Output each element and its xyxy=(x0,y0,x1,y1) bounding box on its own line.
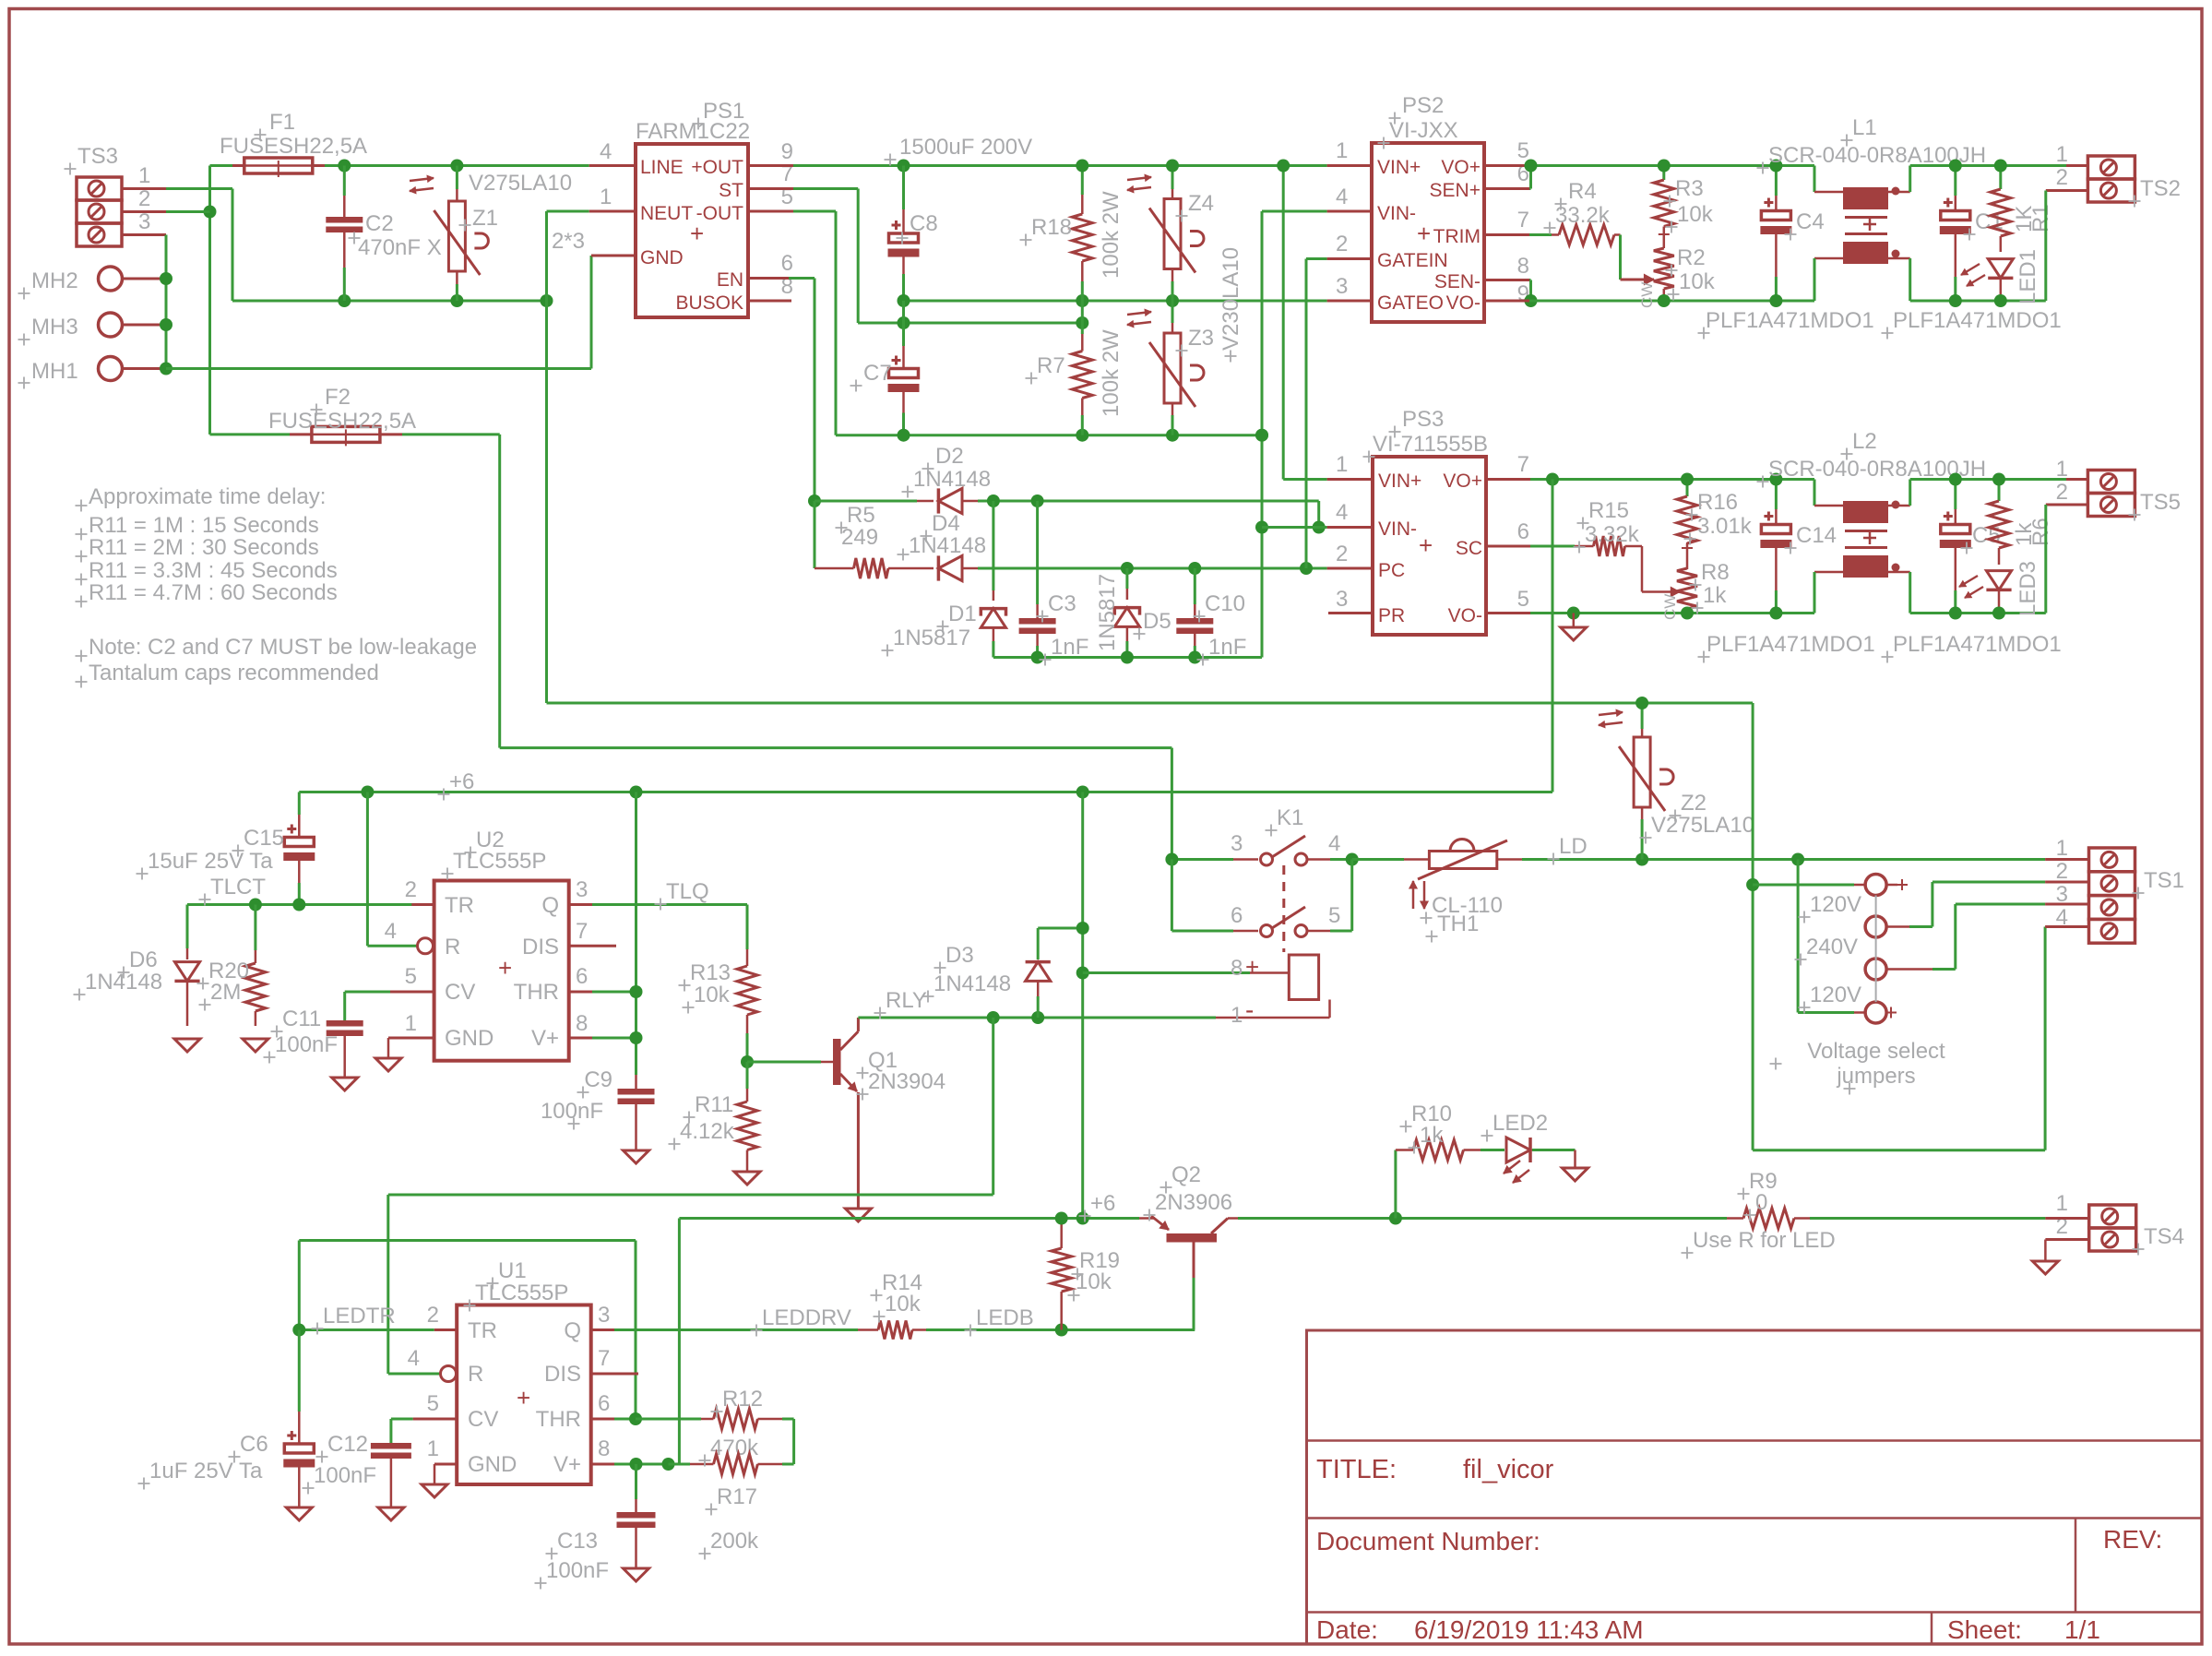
junction VO+ SEN+ xyxy=(1525,160,1538,173)
svg-text:100nF: 100nF xyxy=(275,1032,338,1057)
capacitor C13 xyxy=(617,1464,656,1568)
resistor R10 xyxy=(1396,1140,1481,1161)
wire NEUT bus y326 xyxy=(232,300,547,303)
label LED1 xyxy=(2016,249,2040,304)
capacitor C4 xyxy=(1760,166,1791,302)
svg-text:249: 249 xyxy=(841,525,878,550)
svg-text:EN: EN xyxy=(717,269,743,291)
junction circle1 tap xyxy=(1746,878,1759,891)
LED LED3 xyxy=(1986,571,2011,614)
junction RLY D3 xyxy=(1031,1011,1044,1024)
svg-text:1: 1 xyxy=(405,1011,417,1036)
PS3 labels xyxy=(1373,407,1488,457)
capacitor C3 xyxy=(1019,501,1056,658)
wire TLQ row xyxy=(592,905,747,950)
ground C13 xyxy=(624,1568,649,1581)
wire C7 bus y471.7 xyxy=(836,434,1262,436)
wire pin1 to NEUT bus xyxy=(166,189,232,302)
svg-text:5: 5 xyxy=(427,1391,439,1416)
svg-text:FARM1C22: FARM1C22 xyxy=(636,119,750,144)
svg-text:V230LA10: V230LA10 xyxy=(1219,247,1243,351)
wire LD row xyxy=(1522,858,2045,861)
wire NEUT to PS1 xyxy=(547,210,636,213)
label C2 xyxy=(358,211,442,260)
label R4 xyxy=(1555,179,1611,228)
wire rail B x541.7 down xyxy=(498,435,501,748)
PS3 pin names xyxy=(1378,471,1482,626)
fuse F1 xyxy=(210,158,636,177)
svg-text:1N4148: 1N4148 xyxy=(934,971,1011,996)
svg-text:C6: C6 xyxy=(240,1432,268,1457)
svg-text:REV:: REV: xyxy=(2103,1525,2162,1554)
svg-text:R15: R15 xyxy=(1588,498,1629,523)
svg-text:L2: L2 xyxy=(1852,429,1877,454)
svg-text:VO-: VO- xyxy=(1446,292,1481,314)
svg-text:TS1: TS1 xyxy=(2144,868,2184,893)
label LD xyxy=(1559,834,1588,859)
svg-text:R12: R12 xyxy=(722,1387,763,1412)
svg-text:R11 = 4.7M : 60 Seconds: R11 = 4.7M : 60 Seconds xyxy=(89,580,338,605)
ground PS3 VO- xyxy=(1561,614,1587,641)
label C11 xyxy=(275,1007,338,1057)
svg-text:SEN-: SEN- xyxy=(1434,271,1481,292)
svg-text:Date:: Date: xyxy=(1316,1615,1378,1644)
resistor R18 xyxy=(1072,166,1092,302)
junction C10 top xyxy=(1188,562,1201,575)
svg-text:1/1: 1/1 xyxy=(2064,1615,2100,1644)
svg-text:1N5817: 1N5817 xyxy=(893,625,970,650)
svg-text:VI-711555B: VI-711555B xyxy=(1373,432,1488,457)
svg-text:VO-: VO- xyxy=(1448,605,1482,626)
junction +6 col2 xyxy=(1076,1212,1089,1225)
label 1500uF 200V xyxy=(899,135,1032,160)
svg-text:TRIM: TRIM xyxy=(1433,226,1481,247)
svg-text:VIN+: VIN+ xyxy=(1377,157,1421,178)
svg-text:VO+: VO+ xyxy=(1441,157,1481,178)
junction K1 right xyxy=(1346,853,1359,866)
svg-text:fil_vicor: fil_vicor xyxy=(1463,1455,1554,1484)
svg-text:-: - xyxy=(1245,995,1254,1024)
junction Z1 bottom xyxy=(450,294,463,307)
label R7 xyxy=(1037,329,1124,417)
mounting hole MH3 xyxy=(31,313,166,340)
junction C3 top xyxy=(1031,494,1044,507)
wire U2 reset drop xyxy=(367,792,417,947)
label Z2 xyxy=(1651,791,1754,838)
wire RLY row xyxy=(858,1017,1216,1019)
svg-text:LEDTR: LEDTR xyxy=(323,1304,396,1328)
label R18 xyxy=(1031,191,1124,279)
TH1 arrows xyxy=(1409,881,1428,909)
U2 labels xyxy=(453,828,546,874)
U2 CV wire xyxy=(345,992,434,1020)
svg-text:C11: C11 xyxy=(282,1007,321,1031)
svg-text:3.32k: 3.32k xyxy=(1585,522,1640,547)
PS1 pin names xyxy=(640,157,743,314)
PS3 SC stub xyxy=(1486,545,1575,548)
svg-text:4: 4 xyxy=(1328,831,1340,856)
U2 GND pin xyxy=(388,1038,434,1058)
ground C6 xyxy=(286,1507,312,1520)
svg-text:PLF1A471MDO1: PLF1A471MDO1 xyxy=(1707,632,1875,657)
R15 to R8 wiper xyxy=(1642,546,1680,597)
svg-text:NEUT: NEUT xyxy=(640,203,693,224)
label R13 xyxy=(690,960,731,1007)
title text xyxy=(1316,1455,1554,1484)
label R14 xyxy=(882,1270,922,1316)
svg-text:jumpers: jumpers xyxy=(1836,1064,1915,1089)
label R19 xyxy=(1076,1248,1120,1294)
U1 V+ stub xyxy=(591,1463,680,1466)
label voltage select xyxy=(1807,1039,1945,1089)
wire PS2 VIN- row xyxy=(1262,210,1327,213)
transistor Q1 xyxy=(833,1018,858,1209)
wire VO+ rail L2-TS5 xyxy=(1910,478,2088,481)
varistor Z1 xyxy=(434,166,488,302)
U1 reset bubble xyxy=(441,1366,457,1382)
svg-text:1: 1 xyxy=(2056,836,2068,861)
svg-text:1: 1 xyxy=(2056,1191,2068,1216)
svg-text:LINE: LINE xyxy=(640,157,684,178)
wire Q1 base xyxy=(747,1061,835,1064)
label R5 xyxy=(841,503,878,550)
junction LEDTR xyxy=(292,1324,305,1337)
svg-text:D5: D5 xyxy=(1143,609,1171,634)
svg-text:+6: +6 xyxy=(1090,1191,1115,1216)
label D2 xyxy=(913,444,991,492)
svg-text:VO+: VO+ xyxy=(1443,471,1482,492)
svg-text:8: 8 xyxy=(1231,956,1243,981)
svg-text:+: + xyxy=(690,220,704,247)
resistor R13 xyxy=(737,949,757,1062)
svg-text:PR: PR xyxy=(1378,605,1405,626)
svg-text:10k: 10k xyxy=(1076,1269,1112,1294)
U2 pin numbers xyxy=(385,877,589,1036)
thermistor TH1 xyxy=(1418,840,1522,880)
svg-text:100k 2W: 100k 2W xyxy=(1099,329,1124,417)
svg-text:Document Number:: Document Number: xyxy=(1316,1527,1540,1555)
junction VIN- PS3 stub xyxy=(1255,521,1268,534)
wire pin2 to junction xyxy=(166,210,210,213)
junction C8 top xyxy=(898,160,910,173)
U2 Q stub xyxy=(569,903,592,906)
svg-text:LEDB: LEDB xyxy=(976,1305,1034,1330)
svg-text:R11 = 2M : 30 Seconds: R11 = 2M : 30 Seconds xyxy=(89,535,319,560)
terminal block TS5 xyxy=(2056,457,2181,517)
PS2 pin names xyxy=(1377,157,1481,314)
svg-text:9: 9 xyxy=(781,139,793,164)
label TH1 xyxy=(1432,893,1503,936)
PS2 VO- rail xyxy=(1484,300,1814,303)
label R9 xyxy=(1749,1169,1778,1215)
svg-text:CV: CV xyxy=(445,980,475,1005)
PS1 BUSOK stub xyxy=(748,300,791,303)
U2 TR stub xyxy=(411,903,434,906)
label RLY xyxy=(886,988,927,1013)
svg-text:4: 4 xyxy=(2056,905,2068,930)
wire VO- rail right 2 xyxy=(1910,612,2046,614)
svg-text:4: 4 xyxy=(600,139,612,164)
svg-text:+: + xyxy=(1245,953,1259,981)
svg-text:CW: CW xyxy=(1661,594,1679,620)
svg-text:3: 3 xyxy=(1231,831,1243,856)
note time delay xyxy=(89,484,338,605)
svg-text:R4: R4 xyxy=(1568,179,1597,204)
ground D6 xyxy=(174,1039,200,1052)
U2 DIS stub xyxy=(569,945,616,947)
diode D6 xyxy=(174,905,199,1027)
svg-text:1: 1 xyxy=(1336,452,1348,477)
junction C4 bottom xyxy=(1769,294,1782,307)
wire TLCT row xyxy=(187,903,434,906)
label D6 xyxy=(85,947,162,995)
K1 dashed link xyxy=(1282,865,1285,952)
resistor R1 xyxy=(1991,166,2011,253)
label R16 xyxy=(1697,490,1753,539)
junction V+ col xyxy=(630,1031,643,1044)
jumper J1 circle1 xyxy=(1753,875,1908,896)
junction R1 top xyxy=(1994,160,2007,173)
junction VIN- bus xyxy=(1255,429,1268,442)
varistor Z4 xyxy=(1149,166,1204,302)
svg-text:2: 2 xyxy=(1336,542,1348,566)
junction C14 top xyxy=(1769,473,1782,486)
junction +6 relaycol xyxy=(1076,786,1089,799)
svg-text:PS2: PS2 xyxy=(1402,93,1444,118)
TS5 pin2 wire xyxy=(2046,505,2088,614)
wire NEUT riser x592.5 xyxy=(545,211,548,301)
label Z3 xyxy=(1188,326,1214,351)
U1 pin numbers xyxy=(408,1303,611,1461)
svg-text:2N3906: 2N3906 xyxy=(1155,1190,1232,1215)
svg-text:VIN+: VIN+ xyxy=(1378,471,1421,492)
svg-text:PLF1A471MDO1: PLF1A471MDO1 xyxy=(1706,308,1874,333)
junction Z2 top xyxy=(1635,697,1648,709)
PS1 pin numbers xyxy=(552,139,793,299)
label V230LA10 xyxy=(1219,247,1243,351)
PS1 EN jog xyxy=(748,279,815,502)
label +6 xyxy=(449,769,474,794)
U2 reset bubble xyxy=(418,938,434,954)
label TLCT xyxy=(210,875,266,899)
wire LEDTR over-route xyxy=(299,1241,636,1420)
svg-text:240V: 240V xyxy=(1806,935,1858,959)
svg-text:+OUT: +OUT xyxy=(691,157,743,178)
svg-text:TS3: TS3 xyxy=(77,144,118,169)
svg-text:C12: C12 xyxy=(327,1432,368,1457)
wire rail B y810.6 xyxy=(500,746,1172,749)
svg-text:R11: R11 xyxy=(695,1092,733,1117)
svg-text:D6: D6 xyxy=(129,947,158,972)
svg-text:C10: C10 xyxy=(1205,591,1245,616)
potentiometer R2 xyxy=(1654,248,1674,301)
svg-text:MH2: MH2 xyxy=(31,268,78,293)
ground C11 xyxy=(332,1078,358,1090)
svg-text:10k: 10k xyxy=(1677,202,1714,227)
ground C12 xyxy=(378,1507,404,1520)
svg-text:D4: D4 xyxy=(932,511,960,536)
svg-text:8: 8 xyxy=(598,1436,610,1461)
wire GND net row y399.5 xyxy=(166,367,591,370)
junction D3 +6 xyxy=(1076,922,1089,935)
diode D3 xyxy=(1026,928,1051,1018)
ground R20 xyxy=(243,1039,268,1052)
LED LED2 xyxy=(1481,1138,1576,1162)
svg-text:120V: 120V xyxy=(1810,892,1861,917)
labels PLF1A471MDO1 L1 xyxy=(1706,308,2062,333)
LED2 gnd xyxy=(1563,1150,1588,1182)
svg-text:2*3: 2*3 xyxy=(552,229,585,254)
svg-text:R6: R6 xyxy=(2028,518,2053,546)
svg-text:R3: R3 xyxy=(1675,176,1704,201)
svg-text:R11 = 3.3M : 45 Seconds: R11 = 3.3M : 45 Seconds xyxy=(89,558,338,583)
label Q2 xyxy=(1155,1162,1232,1215)
svg-text:1: 1 xyxy=(2056,457,2068,482)
varistor Z3 xyxy=(1149,301,1204,435)
svg-text:8: 8 xyxy=(1517,254,1529,279)
svg-text:4: 4 xyxy=(385,919,397,944)
PS2 pin numbers xyxy=(1336,138,1529,306)
svg-text:6: 6 xyxy=(598,1391,610,1416)
svg-text:5: 5 xyxy=(405,964,417,989)
svg-text:1: 1 xyxy=(1231,1003,1243,1028)
svg-text:1: 1 xyxy=(138,163,150,188)
svg-text:100nF: 100nF xyxy=(314,1463,376,1488)
label LED3 xyxy=(2016,561,2040,616)
svg-text:2: 2 xyxy=(405,877,417,902)
capacitor C12 xyxy=(371,1443,411,1507)
junction C14 bottom xyxy=(1769,607,1782,620)
svg-text:7: 7 xyxy=(1517,452,1529,477)
svg-text:3: 3 xyxy=(138,209,150,234)
PS3 VO+ stub xyxy=(1486,478,1814,481)
svg-text:6: 6 xyxy=(1517,519,1529,544)
junction VO- gnd xyxy=(1567,607,1580,620)
label R20 xyxy=(208,959,249,1005)
wire LEDB row xyxy=(926,1328,1194,1331)
junction R19 bottom xyxy=(1055,1324,1068,1337)
capacitor C1 xyxy=(1940,166,1971,302)
label LED2 xyxy=(1493,1111,1548,1136)
svg-text:6: 6 xyxy=(1231,903,1243,928)
junction C1 bottom xyxy=(1949,294,1962,307)
label C1 xyxy=(1975,209,2004,234)
svg-text:V+: V+ xyxy=(531,1026,559,1051)
terminal TS1 pin1 stub xyxy=(2045,858,2088,861)
svg-text:VIN-: VIN- xyxy=(1377,203,1416,224)
timer U1 box xyxy=(457,1305,591,1485)
PS3 left stubs xyxy=(1327,480,1373,614)
inductor L1 xyxy=(1814,166,1910,302)
svg-text:GND: GND xyxy=(640,247,684,268)
label C8 xyxy=(910,211,938,236)
PS1 labels xyxy=(636,99,750,144)
jumper J1 circle4 xyxy=(1798,860,1897,1024)
ground R11 xyxy=(734,1172,760,1185)
junction MH2 xyxy=(160,272,172,285)
capacitor C6 xyxy=(283,1330,315,1508)
potentiometer R8 xyxy=(1677,568,1697,614)
junction GATEIN riser xyxy=(1300,562,1313,575)
svg-text:K1: K1 xyxy=(1277,805,1303,830)
junction MH3 xyxy=(160,318,172,331)
svg-text:LEDDRV: LEDDRV xyxy=(762,1305,851,1330)
R4 to R2 wiper xyxy=(1621,235,1655,285)
capacitor C9 xyxy=(618,1075,655,1150)
svg-text:1: 1 xyxy=(600,185,612,209)
varistor Z2 xyxy=(1619,703,1673,860)
svg-text:TH1: TH1 xyxy=(1437,911,1479,936)
label LEDB xyxy=(976,1305,1034,1330)
U1 pin names xyxy=(468,1318,581,1477)
wire D3 top xyxy=(1038,927,1083,930)
wire coil feed xyxy=(1083,971,1290,974)
svg-text:Q2: Q2 xyxy=(1171,1162,1201,1187)
svg-text:Z4: Z4 xyxy=(1188,191,1214,216)
svg-text:7: 7 xyxy=(576,919,588,944)
svg-text:TS2: TS2 xyxy=(2140,176,2181,201)
svg-text:R: R xyxy=(468,1362,483,1387)
svg-text:4: 4 xyxy=(408,1346,420,1371)
svg-text:C13: C13 xyxy=(557,1529,598,1554)
wire LINE net vertical x227.5 xyxy=(208,166,211,435)
svg-text:Z2: Z2 xyxy=(1681,791,1707,816)
junction C7 bottom xyxy=(898,429,910,442)
svg-text:3: 3 xyxy=(598,1303,610,1328)
labels PLF1A471MDO1 xyxy=(1707,632,2062,657)
wire rail B drop to K1 xyxy=(1171,748,1173,860)
junction coil +6 xyxy=(1076,967,1089,980)
resistor R20 xyxy=(245,905,266,1027)
svg-text:3.01k: 3.01k xyxy=(1697,514,1753,539)
svg-text:C2: C2 xyxy=(365,211,394,236)
svg-text:VIN-: VIN- xyxy=(1378,518,1417,540)
wire rail A x592.5 down xyxy=(545,301,548,703)
svg-text:7: 7 xyxy=(598,1346,610,1371)
terminal block TS2 xyxy=(2056,142,2181,202)
junction EN-D2 xyxy=(808,494,821,507)
svg-text:2: 2 xyxy=(427,1303,439,1328)
svg-text:2N3904: 2N3904 xyxy=(868,1069,945,1094)
label Z1 xyxy=(469,171,572,231)
svg-text:C14: C14 xyxy=(1796,523,1837,548)
resistor R12 xyxy=(636,1409,794,1464)
diode D1 xyxy=(981,501,1005,658)
svg-text:R16: R16 xyxy=(1697,490,1738,515)
svg-text:100k 2W: 100k 2W xyxy=(1099,191,1124,279)
junction C3 bottom xyxy=(1031,651,1044,664)
wire +6 to V+ xyxy=(678,1219,681,1465)
U1 Q stub xyxy=(591,1328,614,1331)
svg-text:CV: CV xyxy=(468,1407,498,1432)
junction top rail VIN+ drop xyxy=(1277,160,1290,173)
label F2 xyxy=(268,385,416,434)
junction R2 bottom xyxy=(1658,294,1671,307)
svg-text:DIS: DIS xyxy=(522,935,559,959)
wire D2 row xyxy=(815,500,917,503)
svg-text:1k: 1k xyxy=(1420,1123,1444,1148)
jumper link line xyxy=(1875,896,1877,1003)
junction V+ C13 xyxy=(630,1458,643,1471)
wire top rail L1-TS2 xyxy=(1910,164,2088,167)
label LEDTR xyxy=(323,1304,396,1328)
svg-text:470nF X: 470nF X xyxy=(358,235,442,260)
U2 V+ stub xyxy=(569,1037,636,1040)
relay K1 contact 6-5 xyxy=(1171,860,1351,937)
svg-text:Note: C2 and C7 MUST be low-le: Note: C2 and C7 MUST be low-leakage xyxy=(89,635,477,660)
svg-text:F1: F1 xyxy=(269,110,295,135)
resistor R16 xyxy=(1677,480,1697,570)
